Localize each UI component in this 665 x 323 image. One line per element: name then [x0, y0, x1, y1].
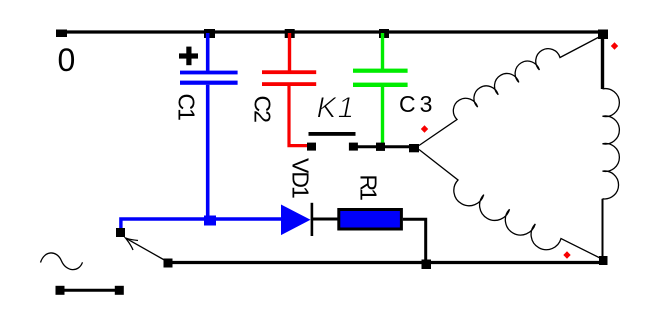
K1 left contact [307, 143, 316, 151]
svg-text:C1: C1 [174, 94, 200, 121]
label C2 (rotated) [250, 96, 276, 123]
node 0 terminal (left end of top bus) [56, 30, 67, 38]
motor winding top (left vertex to top-right vertex) [419, 37, 600, 146]
label VD1 (rotated) [288, 158, 314, 198]
AC source symbol (sine) [41, 253, 83, 270]
svg-text:K1: K1 [317, 92, 356, 125]
junction C1 on blue bottom wire [204, 216, 216, 226]
capacitor C2 (red) [262, 33, 316, 86]
red dot near left vertex [421, 125, 428, 133]
capacitor C1 (polarized, blue) [180, 33, 238, 220]
wire K1 to motor left vertex [353, 145, 414, 148]
wire R1 to bottom bus [403, 219, 426, 260]
red dot near top-right vertex [611, 42, 618, 50]
K1 right contact [349, 143, 358, 151]
motor winding right [603, 89, 620, 199]
wire blue bottom (wiper node to diode anode) [121, 219, 282, 229]
node motor bottom-right vertex [599, 256, 608, 265]
wire stub below top-right vertex [601, 36, 604, 89]
label 0 [58, 42, 76, 78]
node motor top-right vertex [598, 30, 608, 40]
wire top bus from node 0 to motor vertex [59, 30, 603, 33]
node wiper base on bottom bus [164, 259, 173, 268]
junction green wire on K1 wire [376, 143, 385, 151]
polarity plus of C1 [179, 47, 198, 66]
motor winding bottom (bottom-right vertex to left vertex) [419, 150, 600, 259]
resistor R1 [339, 210, 402, 230]
label C3 [399, 91, 436, 117]
label C1 (rotated) [174, 94, 200, 121]
wire bottom bus [167, 261, 603, 264]
svg-text:0: 0 [58, 42, 76, 78]
junction C2 on top bus [285, 29, 295, 38]
relay contact K1 bar [309, 132, 356, 136]
node motor left vertex [409, 144, 419, 152]
label R1 (rotated) [356, 175, 382, 201]
capacitor C3 (green) [353, 33, 408, 147]
wire red from C2 down to K1 left contact [289, 85, 308, 146]
junction R1 drop on bottom bus [422, 260, 432, 270]
connector stub line bottom-left [56, 286, 124, 295]
label K1 [317, 92, 356, 125]
svg-text:R1: R1 [356, 175, 382, 201]
wire stub above bottom-right vertex [602, 199, 604, 257]
red dot near bottom-right vertex [563, 251, 570, 259]
junction C1 on top bus [204, 29, 215, 38]
node wiper target [116, 228, 125, 237]
diode VD1 [281, 203, 313, 236]
wire diode cathode to R1 [313, 218, 339, 221]
svg-text:C2: C2 [250, 96, 276, 123]
junction C3 on top bus [379, 29, 389, 38]
svg-text:C3: C3 [399, 91, 436, 117]
svg-text:VD1: VD1 [288, 158, 314, 198]
wiper arrow (movable contact) [126, 238, 168, 262]
